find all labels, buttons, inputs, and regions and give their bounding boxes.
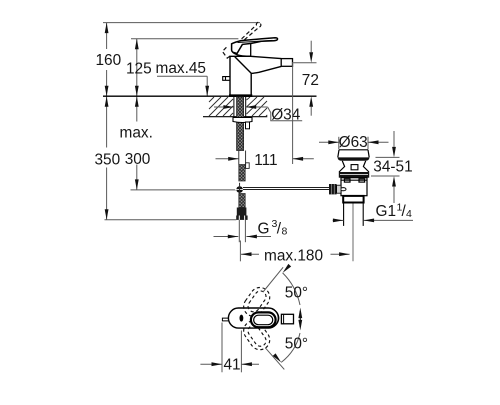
svg-text:Ø63: Ø63 (339, 134, 368, 151)
arrow g114 right (364, 219, 375, 223)
arrow 160 top (105, 23, 109, 33)
arrow 41 right (241, 362, 252, 366)
arrow d63 right (368, 140, 379, 144)
50deg leader down (265, 348, 284, 370)
dashed lever ghost up (240, 284, 274, 320)
arrow g38 right (246, 235, 257, 239)
waste notch (351, 165, 358, 170)
arrow g38 left (228, 235, 239, 239)
svg-text:300: 300 (125, 151, 151, 168)
G3/8 tube (239, 220, 245, 242)
arrow g114 left (333, 219, 344, 223)
hole mark (240, 315, 244, 322)
arrow max180 right (339, 252, 350, 256)
counter bottom line (203, 116, 267, 118)
arrow max300 top (135, 96, 139, 107)
arrow d34 right (246, 106, 268, 108)
waste screw detail (340, 188, 346, 191)
arrow 125 bottom (135, 86, 139, 97)
svg-text:G: G (258, 221, 270, 238)
waste collar (339, 172, 369, 178)
pop-up horizontal rod (243, 187, 329, 189)
50deg leader up (263, 267, 283, 292)
counter hatch left (209, 97, 233, 116)
arrow 160 bottom (105, 86, 109, 97)
svg-text:72: 72 (302, 72, 319, 89)
arrow 350 bottom (105, 209, 109, 220)
base gasket (229, 94, 252, 97)
lever obround (251, 312, 276, 327)
wire hose-end reference line y=219.7 (105, 219, 237, 221)
waste body (341, 178, 367, 196)
dimension line D2 x=136.8 (136, 39, 138, 122)
arrow d34 left (214, 106, 234, 108)
arrow max300 bottom (135, 179, 139, 190)
rod guide fitting (246, 122, 250, 129)
swing arrow vertical (299, 311, 301, 327)
waste bottom nut (343, 196, 363, 203)
d34 leader shelf (268, 107, 303, 121)
hose braid lower (239, 165, 245, 182)
arrow 111 right (293, 158, 314, 160)
svg-text:50°: 50° (285, 336, 308, 353)
spout stub plan (281, 314, 293, 324)
lever front edge (237, 44, 242, 53)
junction circle (236, 186, 243, 193)
waste neck (339, 161, 369, 172)
rod plan (222, 318, 228, 321)
washer under counter (233, 118, 252, 123)
wire max300 reference line y=189.9 (131, 189, 236, 191)
hose nut (236, 216, 247, 220)
arrow max45 (205, 86, 209, 97)
svg-text:160: 160 (96, 52, 122, 69)
waste centerline (352, 204, 354, 262)
arrow 34-51 bottom (392, 176, 396, 187)
lever ridge line (238, 40, 273, 42)
svg-text:max.45: max.45 (156, 60, 206, 77)
counter hatch right (247, 97, 268, 116)
body obround (228, 308, 278, 328)
right end double arc (273, 309, 279, 327)
rod knob knurled (329, 184, 341, 194)
arrow 41 left (212, 362, 223, 366)
arrow 350 top (105, 96, 109, 107)
svg-text:50°: 50° (285, 285, 308, 302)
arrow 34-51 top (392, 147, 396, 158)
body cap under lever (233, 44, 251, 57)
svg-text:125: 125 (126, 61, 152, 78)
counter top line (103, 95, 317, 97)
arrow max180 left (241, 252, 252, 256)
svg-text:350: 350 (95, 152, 121, 169)
tailpipe (344, 203, 364, 226)
dimension line D1 x=106.6 (106, 23, 108, 49)
arrow 72 top (309, 52, 313, 63)
aerator (281, 59, 292, 67)
dim line 72 (310, 41, 312, 53)
wire top reference line y=22.6 (103, 22, 260, 24)
pop-up knob left (223, 77, 230, 81)
arrow 111 left (216, 158, 239, 160)
threaded shank (237, 97, 244, 151)
arrow 125 top (135, 39, 139, 50)
svg-text:41: 41 (224, 357, 241, 374)
arrow 72 bottom (309, 96, 313, 107)
svg-text:4: 4 (406, 208, 412, 220)
spout outlet ref line (293, 62, 316, 64)
wire 125 reference line y=38.7 (131, 38, 238, 40)
svg-text:8: 8 (282, 226, 288, 238)
svg-text:34-51: 34-51 (373, 158, 412, 175)
lever dashed raised (222, 22, 260, 58)
hose connector block (237, 208, 247, 216)
svg-text:max.180: max.180 (264, 247, 323, 264)
max45 leader (157, 76, 207, 96)
hose braid below junction (239, 194, 245, 208)
dashed lever ghost down (240, 317, 274, 353)
hose middle white section (239, 151, 249, 169)
arrow d63 left (328, 140, 339, 144)
waste flange (338, 150, 369, 158)
svg-text:max.: max. (120, 125, 153, 142)
svg-text:111: 111 (254, 152, 277, 169)
faucet body (230, 56, 281, 96)
svg-text:G1: G1 (376, 203, 397, 220)
hole edges in counter (233, 97, 235, 117)
lever solid (232, 38, 278, 54)
svg-text:Ø34: Ø34 (271, 106, 301, 123)
ext line spout plane (292, 62, 294, 164)
